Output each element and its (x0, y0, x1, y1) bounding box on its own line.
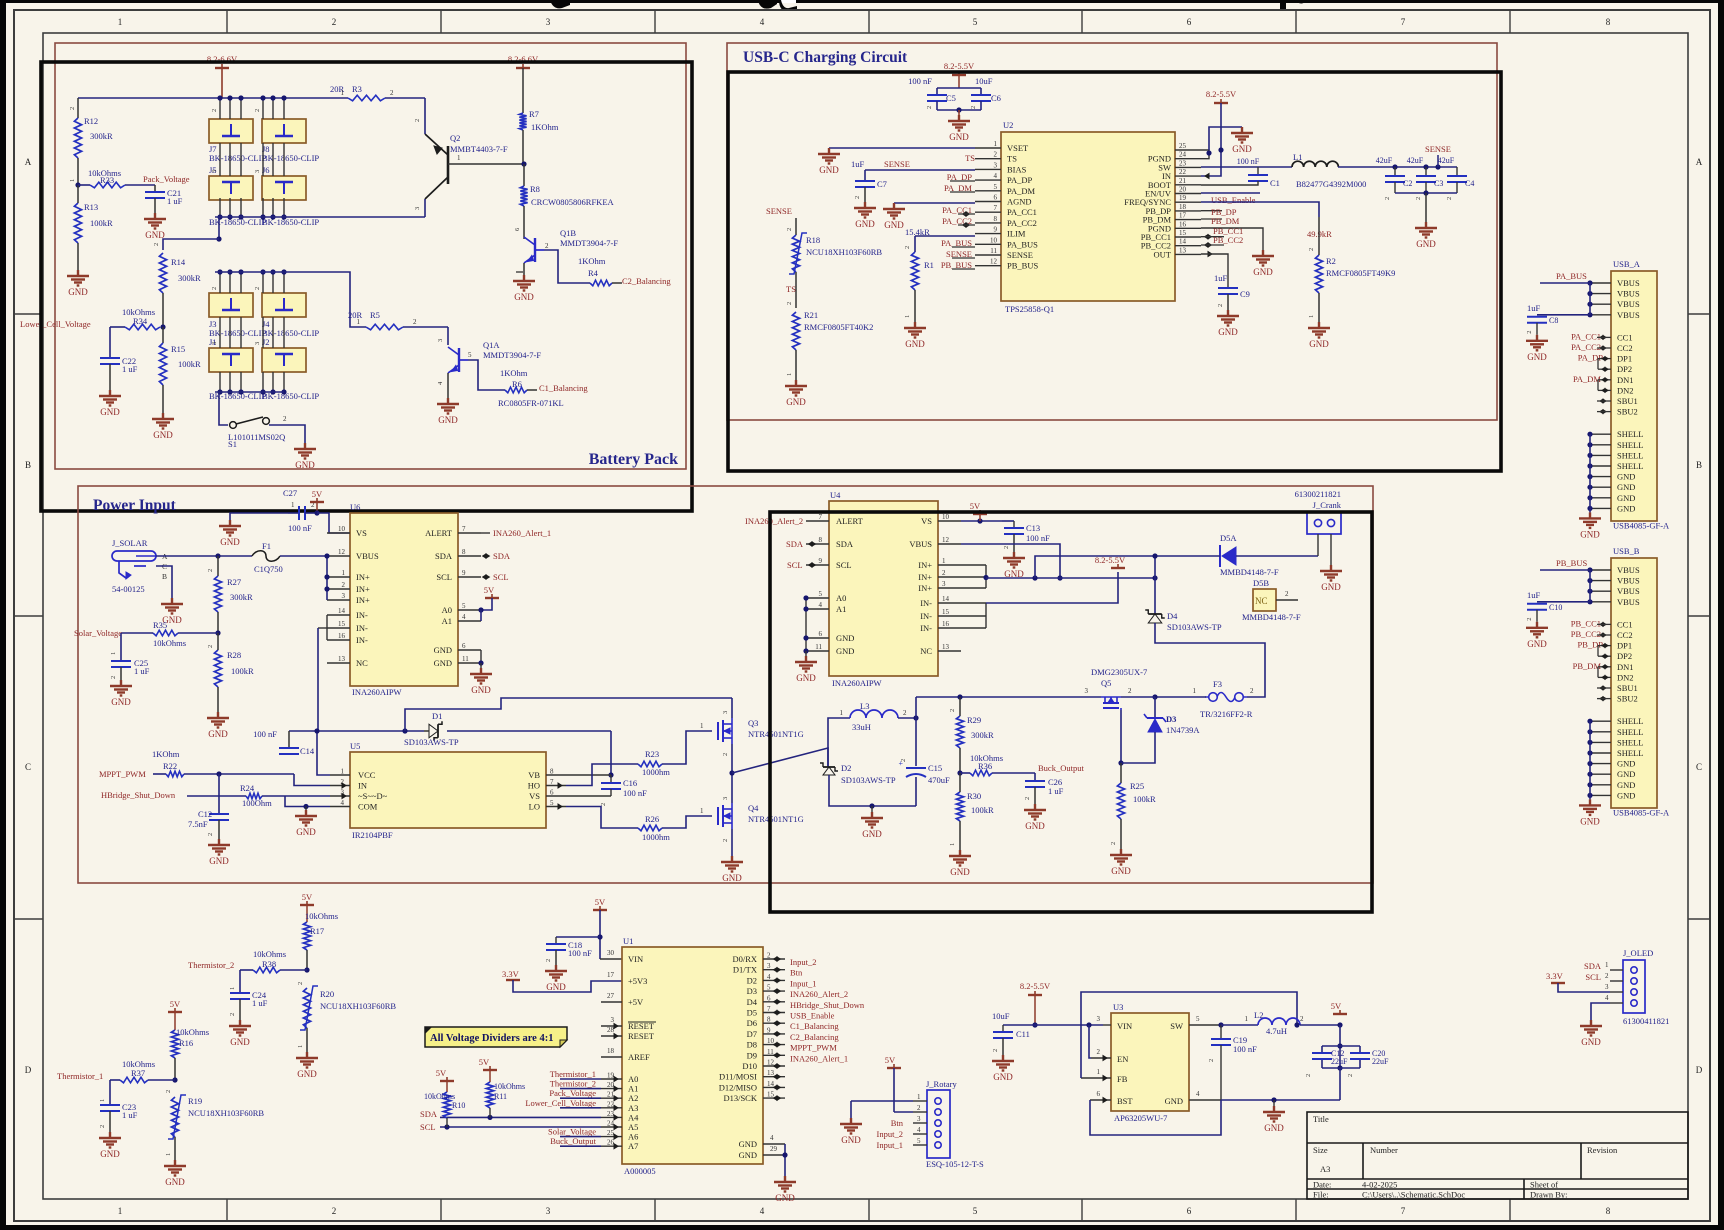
wire VB node (608, 772, 613, 777)
svg-text:1: 1 (342, 569, 346, 577)
svg-text:1: 1 (165, 1153, 172, 1156)
svg-text:24: 24 (607, 1120, 615, 1128)
ground under C12 (208, 839, 230, 855)
svg-text:PB_DP: PB_DP (1577, 640, 1603, 650)
svg-text:FB: FB (1117, 1074, 1128, 1084)
svg-text:R1: R1 (924, 260, 934, 270)
mid annotation overlay box (770, 512, 1372, 912)
svg-text:USB_A: USB_A (1613, 259, 1641, 269)
svg-text:OUT: OUT (1154, 249, 1172, 259)
svg-text:5V: 5V (885, 1055, 896, 1065)
ground under U3 output (1263, 1106, 1285, 1122)
svg-text:GND: GND (297, 1069, 317, 1079)
svg-text:GND: GND (514, 292, 534, 302)
svg-text:1KOhm: 1KOhm (531, 122, 559, 132)
svg-text:300kR: 300kR (230, 592, 253, 602)
svg-text:R16: R16 (179, 1038, 193, 1048)
svg-text:U3: U3 (1113, 1002, 1123, 1012)
svg-text:ILIM: ILIM (1007, 229, 1026, 239)
svg-text:GND: GND (1580, 529, 1600, 539)
Power Input section box (78, 486, 1373, 883)
svg-text:6: 6 (819, 630, 823, 638)
svg-text:GND: GND (1416, 239, 1436, 249)
svg-text:2: 2 (414, 119, 421, 122)
svg-text:D5: D5 (747, 1008, 757, 1018)
svg-text:Btn: Btn (891, 1118, 904, 1128)
svg-text:11: 11 (462, 655, 469, 663)
svg-text:8: 8 (462, 548, 466, 556)
svg-text:A0: A0 (628, 1074, 638, 1084)
svg-text:GND: GND (220, 537, 240, 547)
svg-text:D: D (25, 1065, 32, 1075)
svg-text:8: 8 (550, 768, 554, 776)
svg-text:CC1: CC1 (1617, 619, 1633, 629)
svg-text:6: 6 (1187, 17, 1192, 27)
resistor R16 (171, 1030, 178, 1058)
svg-text:TR/3216FF2-R: TR/3216FF2-R (1200, 709, 1253, 719)
svg-text:IN+: IN+ (918, 560, 932, 570)
svg-text:18: 18 (607, 1047, 615, 1055)
wire R22 to U5 IN (184, 773, 294, 775)
mosfet Q4 (717, 807, 719, 825)
inductor L2 (1221, 1024, 1258, 1026)
svg-text:PB_BUS: PB_BUS (1556, 558, 1587, 568)
svg-text:GND: GND (434, 658, 452, 668)
svg-text:2: 2 (1003, 546, 1010, 549)
capacitor C9 on OUT (1208, 252, 1212, 257)
svg-text:2: 2 (926, 106, 933, 109)
wire PB DP1 DP2 bracket (1598, 645, 1611, 647)
svg-text:28: 28 (607, 1026, 615, 1034)
svg-text:1: 1 (357, 318, 361, 326)
resistor R33 (78, 184, 90, 186)
wire U5 VCC rail (317, 731, 330, 775)
wire U6 ALERT net (481, 532, 490, 534)
svg-text:R4: R4 (588, 268, 599, 278)
capacitor C25 (120, 633, 122, 661)
svg-text:8: 8 (819, 536, 823, 544)
svg-text:2: 2 (1300, 1015, 1304, 1023)
svg-text:SENSE: SENSE (1007, 250, 1033, 260)
svg-text:Btn: Btn (790, 968, 803, 978)
svg-text:2: 2 (1285, 590, 1289, 598)
svg-text:GND: GND (841, 1135, 861, 1145)
svg-text:MPPT_PWM: MPPT_PWM (99, 769, 146, 779)
svg-text:BK-18650-CLIP: BK-18650-CLIP (209, 217, 266, 227)
capacitor C24 (239, 970, 241, 993)
svg-text:5V: 5V (302, 892, 313, 902)
svg-text:GND: GND (836, 646, 854, 656)
ground under C27 left (219, 520, 241, 536)
svg-text:10: 10 (767, 1037, 775, 1045)
svg-text:TS: TS (1007, 154, 1017, 164)
svg-text:GND: GND (1617, 759, 1635, 769)
svg-text:IN-: IN- (920, 611, 932, 621)
svg-text:GND: GND (775, 1193, 795, 1203)
svg-text:2: 2 (900, 759, 907, 762)
svg-text:U6: U6 (350, 502, 360, 512)
capacitor C1 bootstrap (1257, 167, 1259, 175)
resistor R8 (523, 164, 525, 186)
wire Q3 source to Q4 drain (731, 744, 733, 803)
svg-text:2: 2 (854, 196, 861, 199)
svg-text:C13: C13 (1026, 523, 1040, 533)
svg-text:MMDT3904-7-F: MMDT3904-7-F (483, 350, 541, 360)
svg-text:4: 4 (1196, 1090, 1200, 1098)
svg-text:VSET: VSET (1007, 143, 1029, 153)
wire output caps C12 C20 (1339, 1025, 1341, 1068)
power net 8.2-5.5V above C5 C6 (952, 74, 966, 76)
svg-text:A6: A6 (628, 1132, 638, 1142)
svg-text:20: 20 (1179, 186, 1187, 194)
svg-text:GND: GND (1309, 339, 1329, 349)
svg-text:5: 5 (1196, 1015, 1200, 1023)
svg-text:1000hm: 1000hm (642, 767, 670, 777)
Battery Pack section box (55, 43, 686, 469)
svg-text:1: 1 (1097, 1068, 1101, 1076)
svg-text:GND: GND (884, 220, 904, 230)
svg-text:2: 2 (390, 89, 394, 97)
ground under buck rail (871, 806, 873, 812)
ground under C8 (1526, 335, 1548, 351)
resistor R38 (253, 967, 280, 973)
svg-text:R36: R36 (978, 761, 992, 771)
svg-text:2: 2 (1347, 1074, 1354, 1077)
zener diode D3 1N4739A (1154, 697, 1156, 718)
capacitor C10 (1537, 601, 1590, 603)
svg-text:PB_DM: PB_DM (1573, 661, 1602, 671)
svg-text:AP63205WU-7: AP63205WU-7 (1114, 1113, 1167, 1123)
svg-text:Power Input: Power Input (93, 497, 177, 514)
svg-text:EN: EN (1117, 1054, 1128, 1064)
svg-text:PB_CC1: PB_CC1 (1571, 618, 1601, 628)
svg-text:2: 2 (211, 287, 218, 290)
capacitor C2 (1394, 167, 1396, 176)
resistor R7 (522, 110, 524, 113)
svg-text:2: 2 (342, 581, 346, 589)
svg-text:Battery Pack: Battery Pack (589, 451, 678, 468)
svg-text:SHELL: SHELL (1617, 450, 1643, 460)
svg-text:Buck_Output: Buck_Output (550, 1136, 596, 1146)
svg-text:22uF: 22uF (1331, 1057, 1348, 1066)
PA SBU stubs (1603, 399, 1606, 403)
svg-text:300kR: 300kR (90, 131, 113, 141)
svg-text:Lower_Cell_Voltage: Lower_Cell_Voltage (20, 319, 91, 329)
svg-text:R25: R25 (1130, 781, 1144, 791)
svg-text:VS: VS (529, 791, 540, 801)
svg-text:SCL: SCL (436, 572, 452, 582)
mosfet Q3 (717, 722, 719, 740)
svg-text:5V: 5V (170, 999, 181, 1009)
svg-text:IN+: IN+ (918, 583, 932, 593)
svg-text:BK-18650-CLIP: BK-18650-CLIP (262, 153, 319, 163)
svg-text:9: 9 (994, 226, 998, 234)
svg-text:25: 25 (1179, 142, 1187, 150)
svg-text:AGND: AGND (1007, 197, 1032, 207)
svg-text:3: 3 (211, 342, 218, 345)
transistor Q1B (534, 238, 536, 262)
svg-text:PA_DM: PA_DM (1007, 186, 1035, 196)
wire bus3 R5 to Q1A (403, 326, 448, 328)
wire Q3 drain (731, 698, 733, 718)
svg-text:7: 7 (767, 1005, 771, 1013)
svg-text:GND: GND (1527, 352, 1547, 362)
capacitor C26 (1034, 773, 1036, 781)
svg-text:+5V: +5V (628, 997, 644, 1007)
fuse F1 (252, 551, 280, 562)
svg-text:15: 15 (1179, 229, 1187, 237)
svg-text:L2: L2 (1254, 1010, 1263, 1020)
wire U4 IN+ bracket (985, 565, 987, 588)
ground under C13 (1003, 552, 1025, 568)
svg-text:11: 11 (815, 643, 822, 651)
battery pack annotation overlay box (41, 62, 692, 511)
wire caps to GND rail (1339, 1068, 1341, 1100)
svg-text:100kR: 100kR (971, 805, 994, 815)
svg-text:2: 2 (207, 645, 214, 648)
svg-text:A1: A1 (442, 616, 452, 626)
wire Q4 source to GND (731, 829, 733, 856)
svg-text:5: 5 (973, 1206, 978, 1216)
wire Q1B base to R4 (544, 250, 590, 283)
svg-text:D0/RX: D0/RX (732, 954, 757, 964)
svg-text:4: 4 (341, 799, 345, 807)
svg-text:D8: D8 (747, 1040, 757, 1050)
resistor R11 (483, 1069, 497, 1071)
wire SW pin23 to L1 (1201, 166, 1292, 168)
wire PGND pin16 to GND (1201, 228, 1263, 250)
svg-text:SD103AWS-TP: SD103AWS-TP (1167, 622, 1222, 632)
svg-text:C2_Balancing: C2_Balancing (790, 1032, 839, 1042)
svg-text:10kOhms: 10kOhms (176, 1027, 209, 1037)
resistor R30 (956, 792, 963, 821)
svg-text:L1: L1 (1293, 152, 1302, 162)
svg-text:INA260AIPW: INA260AIPW (832, 678, 882, 688)
svg-text:2: 2 (970, 106, 977, 109)
svg-text:4: 4 (819, 601, 823, 609)
title block (1307, 1112, 1688, 1199)
svg-text:4: 4 (994, 172, 998, 180)
wire U4 A0 A1 to GND bracket (805, 598, 807, 651)
svg-text:GND: GND (230, 1037, 250, 1047)
ground under USB_B (1579, 799, 1601, 815)
svg-text:3: 3 (722, 797, 729, 800)
svg-text:Q3: Q3 (748, 718, 758, 728)
svg-text:25: 25 (607, 1129, 615, 1137)
svg-text:2: 2 (332, 1206, 337, 1216)
resistor R23 (638, 761, 662, 767)
svg-text:F3: F3 (1213, 679, 1222, 689)
svg-text:22: 22 (607, 1100, 615, 1108)
svg-text:6: 6 (550, 789, 554, 797)
svg-text:5V: 5V (312, 489, 323, 499)
svg-text:100 nF: 100 nF (288, 523, 312, 533)
svg-text:7: 7 (1401, 1206, 1406, 1216)
svg-text:GND: GND (1232, 144, 1252, 154)
svg-text:15: 15 (338, 620, 346, 628)
transistor Q2 (447, 146, 450, 184)
svg-text:7: 7 (1401, 17, 1406, 27)
svg-text:17: 17 (607, 971, 615, 979)
svg-text:NCU18XH103F60RB: NCU18XH103F60RB (320, 1001, 396, 1011)
wire J_Crank pin1 (1317, 534, 1319, 556)
ground at J_Rotary (840, 1118, 862, 1134)
svg-text:14: 14 (1179, 238, 1187, 246)
svg-text:100kR: 100kR (231, 666, 254, 676)
wire power to IN pin22 (1201, 103, 1221, 176)
svg-text:2: 2 (1305, 1074, 1312, 1077)
svg-text:IN-: IN- (920, 623, 932, 633)
svg-text:2: 2 (1308, 248, 1315, 251)
capacitor C19 (1218, 1022, 1223, 1027)
svg-text:SDA: SDA (435, 551, 453, 561)
svg-text:SD103AWS-TP: SD103AWS-TP (404, 737, 459, 747)
ground under R20 (296, 1052, 318, 1068)
wire D1 cathode up to Q3 drain rail (610, 731, 612, 775)
svg-text:F1: F1 (262, 541, 271, 551)
capacitor C18 (556, 936, 600, 938)
svg-text:2: 2 (207, 569, 214, 572)
svg-text:GND: GND (905, 339, 925, 349)
svg-text:8.2-5.5V: 8.2-5.5V (1020, 981, 1051, 991)
capacitor C8 (1537, 314, 1590, 316)
svg-text:GND: GND (949, 132, 969, 142)
svg-text:7: 7 (462, 525, 466, 533)
svg-text:R6: R6 (512, 379, 522, 389)
ground under U5 COM (295, 810, 317, 826)
svg-text:1: 1 (118, 1206, 123, 1216)
thermistor R18 (795, 218, 797, 235)
svg-text:NC: NC (1255, 596, 1268, 606)
svg-text:18: 18 (1179, 203, 1187, 211)
svg-text:PB_DM: PB_DM (1211, 216, 1240, 226)
svg-text:Drawn By:: Drawn By: (1530, 1190, 1568, 1200)
svg-text:GND: GND (1580, 816, 1600, 826)
svg-text:CC1: CC1 (1617, 332, 1633, 342)
svg-text:D3: D3 (1166, 714, 1176, 724)
svg-text:GND: GND (1617, 503, 1635, 513)
svg-text:GND: GND (1617, 482, 1635, 492)
wire F3 to Q5 (1155, 696, 1206, 698)
svg-text:Q2: Q2 (450, 133, 460, 143)
wire battery bus1 (78, 97, 348, 99)
svg-text:2: 2 (99, 1125, 106, 1128)
clip pin stubs top group (219, 98, 221, 119)
svg-text:C: C (1696, 762, 1702, 772)
svg-text:4-02-2025: 4-02-2025 (1362, 1180, 1397, 1190)
svg-text:B: B (1696, 460, 1702, 470)
svg-text:TS: TS (965, 153, 975, 163)
resistor R25 (1120, 763, 1122, 783)
svg-text:2: 2 (229, 1013, 236, 1016)
resistor R15 (162, 327, 164, 343)
svg-text:BK-18650-CLIP: BK-18650-CLIP (262, 217, 319, 227)
ground under U4 (795, 656, 817, 672)
svg-text:R17: R17 (310, 926, 324, 936)
svg-text:GND: GND (1025, 821, 1045, 831)
svg-text:NTR4501NT1G: NTR4501NT1G (748, 814, 804, 824)
resistor R37 (120, 1077, 148, 1083)
capacitor C7 (864, 170, 866, 181)
svg-text:SBU2: SBU2 (1617, 407, 1638, 417)
wire USB_B shell gnd bus (1590, 720, 1611, 722)
diode D1 SD103AWS-TP (429, 724, 438, 738)
svg-text:J_Crank: J_Crank (1313, 500, 1342, 510)
svg-text:6: 6 (1187, 1206, 1192, 1216)
capacitor C6 (980, 88, 982, 95)
fuse F3 (1209, 693, 1218, 702)
svg-text:3: 3 (254, 342, 261, 345)
svg-text:8: 8 (1606, 17, 1611, 27)
svg-text:C10: C10 (1549, 603, 1562, 612)
svg-text:4: 4 (770, 1134, 774, 1142)
wire J_Rotary pin1 to GND (851, 1100, 913, 1102)
svg-text:1 uF: 1 uF (1048, 786, 1064, 796)
svg-text:8.2-5.5V: 8.2-5.5V (1206, 89, 1237, 99)
wire battery bus2 (215, 216, 425, 218)
svg-text:IN-: IN- (356, 623, 368, 633)
svg-text:5V: 5V (595, 897, 606, 907)
svg-text:MMBD4148-7-F: MMBD4148-7-F (1242, 612, 1301, 622)
svg-text:GND: GND (739, 1139, 757, 1149)
ground under U1 (774, 1176, 796, 1192)
svg-text:GND: GND (295, 460, 315, 470)
svg-text:2: 2 (994, 151, 998, 159)
svg-text:C12: C12 (198, 809, 212, 819)
resistor R24 (246, 793, 262, 799)
svg-text:2: 2 (110, 676, 117, 679)
svg-text:1uF: 1uF (1527, 590, 1541, 600)
svg-text:VB: VB (528, 770, 540, 780)
wire J_OLED pin4 to GND (1591, 1003, 1610, 1020)
svg-text:BK-18650-CLIP: BK-18650-CLIP (209, 328, 266, 338)
svg-text:16: 16 (338, 632, 346, 640)
wire bus2 branch to R14 (218, 217, 220, 239)
svg-text:10kOhms: 10kOhms (424, 1092, 455, 1101)
svg-text:1uF: 1uF (1527, 303, 1541, 313)
svg-text:1: 1 (949, 843, 956, 846)
svg-text:5V: 5V (484, 585, 495, 595)
wire PB DN1 DN2 bracket (1598, 666, 1611, 668)
svg-text:2: 2 (1217, 304, 1224, 307)
battery clip J3 (209, 293, 253, 317)
wire U2 VSET to GND (829, 147, 975, 149)
wire buck top rail right (916, 696, 1101, 698)
svg-text:GND: GND (1617, 769, 1635, 779)
svg-text:20R: 20R (348, 310, 363, 320)
svg-text:IN-: IN- (356, 635, 368, 645)
svg-text:S1: S1 (228, 439, 237, 449)
svg-text:J_OLED: J_OLED (1623, 948, 1653, 958)
ground on VSET wire (818, 148, 840, 164)
wire C11 to U3 VIN (1035, 1024, 1103, 1026)
svg-text:LO: LO (529, 802, 540, 812)
svg-text:7: 7 (819, 513, 823, 521)
ground under C18 (545, 965, 567, 981)
svg-text:D1: D1 (432, 711, 442, 721)
svg-text:A4: A4 (628, 1112, 639, 1122)
ground under C23 (99, 1132, 121, 1148)
svg-text:GND: GND (1218, 327, 1238, 337)
svg-text:21: 21 (607, 1091, 615, 1099)
svg-text:7.5nF: 7.5nF (188, 819, 208, 829)
svg-text:R12: R12 (84, 116, 98, 126)
svg-text:R21: R21 (804, 310, 818, 320)
svg-text:Lower_Cell_Voltage: Lower_Cell_Voltage (525, 1098, 596, 1108)
svg-text:2: 2 (254, 109, 261, 112)
svg-text:1: 1 (297, 1045, 304, 1048)
capacitor C15 470uF (915, 718, 917, 766)
